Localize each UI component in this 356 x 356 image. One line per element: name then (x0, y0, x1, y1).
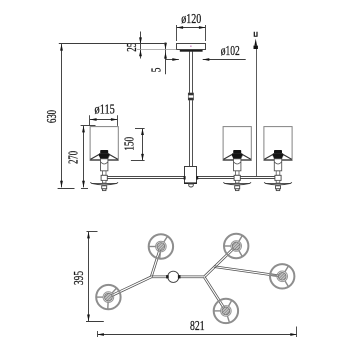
dimension 821 (97, 319, 297, 337)
rod (190, 52, 193, 167)
arm: branch to head 3 (214, 266, 279, 277)
lamp 1 (front view) (90, 127, 118, 191)
extension line canopy bottom (137, 49, 176, 51)
svg-text:150: 150 (122, 137, 137, 151)
canopy ring (180, 50, 203, 52)
svg-text:ø115: ø115 (95, 102, 115, 117)
central hub (top view) (166, 271, 180, 282)
canopy (177, 44, 206, 50)
rod joint (188, 93, 193, 100)
dimension 270 (66, 126, 95, 189)
arm: right junction to head 5 (203, 276, 224, 308)
leader line with tag (rod diameter) (254, 32, 258, 177)
lamp head 2 (top view) (224, 234, 248, 258)
svg-text:ø102: ø102 (221, 44, 240, 59)
svg-text:270: 270 (66, 151, 81, 164)
lamp head 1 (top view) (149, 234, 173, 258)
svg-text:ø120: ø120 (181, 12, 201, 27)
horizontal arm (front view) (107, 177, 275, 179)
dimension 395 (72, 232, 104, 322)
lamp 3 (front view) (264, 127, 292, 191)
dimension line ø120 (177, 25, 206, 41)
arm: hub to right junction (179, 276, 204, 278)
svg-text:25: 25 (125, 43, 140, 52)
dimension ø102 (166, 44, 246, 61)
lamp head 3 (top view) (270, 264, 294, 288)
svg-text:821: 821 (190, 319, 205, 334)
svg-text:395: 395 (72, 271, 87, 285)
dimension 150 (122, 128, 144, 160)
lamp head 5 (top view) (214, 299, 238, 323)
arm: left junction to head 1 (150, 250, 160, 278)
central body (front view) (184, 167, 199, 188)
lamp head 4 (top view) (96, 285, 120, 309)
lamp 2 (front view) (223, 127, 251, 191)
dimension 630 (45, 44, 166, 189)
svg-text:630: 630 (45, 110, 60, 123)
dimension 5 (150, 43, 167, 75)
arm: left junction to head 4 (111, 276, 151, 297)
arm: left junction to hub (151, 276, 167, 278)
dimension 25 (125, 32, 142, 59)
dimension ø115 (90, 102, 118, 126)
arm: right junction to head 2 (204, 248, 235, 278)
svg-text:5: 5 (150, 68, 165, 73)
